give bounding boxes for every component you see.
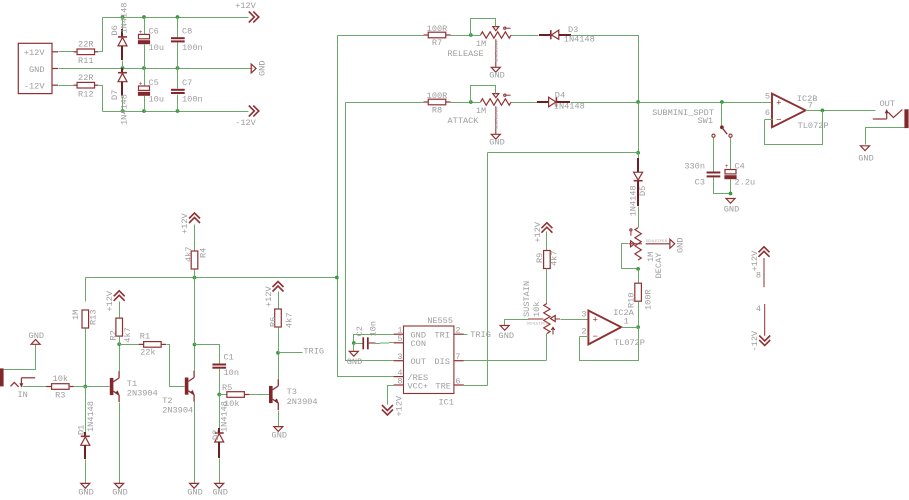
svg-text:+12V: +12V	[395, 395, 405, 416]
wire IC2A output	[622, 327, 639, 329]
wire +12V to R4	[194, 225, 196, 252]
wire R9 to SUSTAIN pot	[546, 269, 548, 304]
svg-text:3: 3	[397, 352, 402, 362]
svg-text:GND: GND	[258, 61, 268, 76]
pin number 3 IC2A	[581, 310, 586, 320]
svg-text:C3: C3	[695, 178, 705, 188]
junction node A	[636, 100, 640, 104]
wire SW1 right throw to C4	[730, 138, 732, 170]
ground GND at T1 emitter	[112, 483, 127, 497]
junction +12V rail / C6	[142, 15, 146, 19]
svg-text:+: +	[139, 80, 143, 87]
wire TRE net horizontal	[488, 152, 639, 154]
wire R12 to -12V rail	[99, 86, 103, 112]
wire D2 to GND	[219, 459, 221, 484]
capacitor C7 100n	[171, 78, 203, 105]
ground GND above IN jack	[29, 331, 44, 344]
svg-text:GND: GND	[489, 138, 504, 148]
wire OUT jack sleeve to GND	[866, 128, 905, 145]
junction +12V rail / C8	[176, 15, 180, 19]
wire R8 left	[346, 102, 424, 104]
svg-text:10u: 10u	[149, 43, 164, 53]
junction RELEASE pot left end	[469, 33, 473, 37]
resistor R4 4k7	[184, 247, 209, 269]
pin 4 /RES stub	[394, 368, 404, 378]
wire IC2B output	[806, 110, 876, 112]
svg-text:8: 8	[397, 376, 402, 386]
wire DECAY wiper bracket	[622, 244, 639, 269]
wire GND from connector	[59, 68, 253, 70]
svg-text:100R: 100R	[427, 91, 448, 101]
wire D1 top	[85, 387, 87, 433]
ground GND at SUSTAIN	[499, 326, 514, 342]
svg-text:-12V: -12V	[24, 81, 45, 91]
wire +12V from connector to R11	[59, 51, 74, 53]
ground GND at OUT jack	[858, 146, 873, 164]
svg-text:+12V: +12V	[180, 213, 190, 234]
ground GND below RELEASE pot	[489, 67, 504, 80]
svg-text:4k7: 4k7	[550, 251, 560, 266]
wire IC2B feedback loop	[765, 111, 823, 145]
wire node A to SW1 pole	[721, 103, 723, 127]
junction C3/C4 GND node	[729, 192, 733, 196]
wire RELEASE pot to D3	[512, 35, 539, 37]
resistor R12	[74, 73, 99, 99]
ground GND below ATTACK pot	[489, 134, 504, 147]
supply -12V arrow (bottom rail)	[235, 106, 259, 129]
svg-text:C4: C4	[735, 162, 745, 172]
wire T2 emitter to GND	[194, 402, 196, 484]
connector J1 power input box	[18, 43, 58, 93]
wire pin1 to C2/GND	[354, 335, 394, 344]
svg-text:2: 2	[581, 326, 586, 336]
svg-text:GND: GND	[29, 331, 44, 341]
svg-text:R6: R6	[268, 317, 278, 327]
pin 2 TRI stub	[454, 326, 464, 336]
capacitor C2 10n	[354, 321, 379, 349]
svg-text:22k: 22k	[140, 348, 155, 358]
wire C6 bottom	[144, 45, 146, 69]
wire IC2A feedback loop	[580, 328, 639, 361]
wire ATTACK pot to D4	[512, 102, 538, 104]
svg-text:GND: GND	[489, 71, 504, 81]
svg-text:GND: GND	[78, 488, 93, 498]
potentiometer DECAY 1M	[629, 228, 664, 279]
capacitor C8 100n	[171, 27, 203, 54]
junction GND rail / C5 C6	[142, 66, 146, 70]
IC IC1 NE555 box	[404, 316, 454, 408]
switch SW1 SUBMINI_SPDT	[652, 108, 732, 137]
svg-text:+: +	[776, 99, 781, 109]
resistor R2 4k7	[109, 318, 134, 343]
svg-text:C5: C5	[149, 78, 159, 88]
wire R13 bottom	[85, 329, 87, 387]
pin names NE555 right	[434, 330, 450, 391]
svg-text:10k: 10k	[532, 302, 542, 317]
svg-text:100n: 100n	[182, 43, 203, 53]
ground GND at D1	[78, 483, 93, 497]
junction rail / R7 net	[335, 276, 339, 280]
wire R11 to +12V rail	[99, 18, 103, 52]
wire T1 collector	[119, 345, 121, 372]
svg-text:330n: 330n	[684, 162, 705, 172]
transistor T3 2N3904	[269, 379, 318, 410]
svg-text:100R: 100R	[644, 289, 654, 310]
junction DECAY bottom	[636, 267, 640, 271]
svg-text:GND: GND	[724, 205, 739, 215]
capacitor C1 10n	[212, 353, 239, 379]
svg-text:TRE: TRE	[435, 381, 450, 391]
wire C8 top	[177, 18, 179, 38]
wire D1 to GND	[85, 460, 87, 484]
wire C1 top	[195, 345, 220, 364]
capacitor C5 10u	[138, 78, 164, 105]
potentiometer RELEASE 1M	[448, 27, 512, 68]
svg-text:R3: R3	[55, 390, 65, 400]
svg-text:C8: C8	[182, 27, 192, 37]
junction SW1 pole tap	[720, 100, 724, 104]
diode D5 1N4148	[628, 158, 648, 216]
svg-text:D4: D4	[555, 91, 565, 101]
svg-text:+: +	[593, 315, 598, 325]
svg-text:D1: D1	[77, 425, 87, 435]
transistor T2 2N3904	[162, 371, 195, 416]
supply +12V pin 8 IC2	[750, 247, 770, 287]
svg-text:6: 6	[455, 376, 460, 386]
node TRIG label at T3	[279, 347, 325, 357]
svg-text:1M: 1M	[71, 310, 81, 320]
svg-text:IC1: IC1	[439, 398, 454, 408]
wire R7 to RELEASE pot	[451, 35, 481, 37]
svg-text:+12V: +12V	[750, 250, 760, 271]
svg-text:GND: GND	[212, 488, 227, 498]
wire SUSTAIN wiper to IC2A pin 3	[561, 319, 589, 321]
capacitor C4 2.2u	[724, 162, 755, 188]
wire T2 collector node to rail	[194, 278, 196, 345]
svg-text:GND: GND	[858, 154, 873, 164]
wire R6 bottom	[278, 328, 280, 353]
svg-text:D3: D3	[568, 25, 578, 35]
diode D7 1N4148	[110, 68, 130, 125]
svg-text:T2: T2	[162, 396, 172, 406]
wire IN jack tip to R3	[23, 386, 47, 388]
wire RELEASE wiper bracket	[471, 19, 496, 36]
wire R4 bottom	[194, 270, 196, 278]
resistor R10 100R	[626, 283, 653, 310]
wire R13 top	[85, 278, 87, 302]
svg-text:TRI: TRI	[434, 330, 449, 340]
wire R3 to T1 base node	[74, 386, 86, 388]
wire SW1 left throw to C3	[713, 138, 715, 172]
svg-text:GND: GND	[347, 357, 362, 367]
wire R2 bottom	[119, 337, 121, 345]
wire ATTACK wiper bracket	[471, 86, 496, 103]
resistor R8 100R	[424, 91, 451, 116]
wire C5 top	[144, 69, 146, 86]
svg-text:NE555: NE555	[427, 316, 453, 326]
svg-text:+12V: +12V	[24, 48, 45, 58]
svg-text:GND: GND	[272, 431, 287, 441]
svg-text:+: +	[139, 29, 143, 36]
svg-text:GND: GND	[676, 238, 686, 253]
svg-text:D6: D6	[110, 25, 120, 35]
svg-text:IN: IN	[18, 390, 28, 400]
wire -12V from connector to R12	[59, 85, 74, 87]
wire +12V to R2	[119, 302, 121, 319]
pin number 7 IC2B	[808, 100, 813, 110]
svg-text:10k: 10k	[53, 374, 68, 384]
supply +12V arrow (top rail)	[235, 1, 259, 22]
svg-text:−: −	[593, 332, 598, 342]
wire D5 to DECAY pot	[638, 207, 640, 228]
svg-text:+: +	[725, 163, 729, 170]
ground GND at DECAY wiper	[646, 238, 686, 253]
svg-text:3: 3	[581, 310, 586, 320]
svg-text:1M: 1M	[476, 39, 486, 49]
wire pin 8 VCC to +12V	[388, 386, 394, 405]
ground GND at C2	[347, 344, 362, 368]
svg-text:GND: GND	[499, 331, 514, 341]
svg-text:C6: C6	[149, 27, 159, 37]
svg-text:OUT: OUT	[411, 357, 426, 367]
diode D3 1N4148	[539, 25, 595, 45]
svg-text:R2: R2	[109, 330, 119, 340]
wire T1 emitter to GND	[119, 403, 121, 484]
svg-text:1N4148: 1N4148	[120, 3, 130, 34]
pin 1 GND stub	[394, 326, 404, 336]
svg-text:T3: T3	[287, 387, 297, 397]
wire R7 left	[338, 35, 424, 37]
svg-text:5: 5	[397, 334, 402, 344]
svg-text:2: 2	[455, 326, 460, 336]
svg-text:DIS: DIS	[434, 357, 449, 367]
svg-text:R9: R9	[535, 253, 545, 263]
wire node A to SW1/IC2B	[639, 102, 772, 104]
svg-text:6: 6	[765, 108, 770, 118]
svg-text:CON: CON	[411, 339, 426, 349]
wire SUSTAIN bottom to DIS	[546, 334, 548, 361]
svg-text:SCHLEIFER: SCHLEIFER	[496, 40, 500, 62]
svg-text:22R: 22R	[78, 73, 93, 83]
svg-text:ATTACK: ATTACK	[448, 116, 480, 126]
svg-text:D5: D5	[638, 186, 648, 196]
pin number 1 IC2A	[624, 317, 629, 327]
diode D2 1N4148	[211, 401, 230, 458]
svg-text:R8: R8	[432, 106, 442, 116]
junction -12V rail / C5	[142, 109, 146, 113]
svg-text:R10: R10	[626, 293, 636, 308]
ground GND below C3/C4	[724, 199, 739, 215]
svg-text:4k7: 4k7	[184, 247, 194, 262]
wire TRE net vertical	[487, 153, 489, 386]
svg-text:R7: R7	[432, 38, 442, 48]
svg-text:SUSTAIN: SUSTAIN	[522, 281, 532, 317]
pin 7 DIS stub	[454, 352, 464, 362]
potentiometer SUSTAIN 10k	[522, 281, 560, 335]
svg-text:R4: R4	[199, 248, 209, 258]
svg-text:−: −	[776, 115, 781, 125]
diode D4 1N4148	[537, 91, 585, 112]
svg-text:SCHLEIFER: SCHLEIFER	[527, 323, 549, 327]
wire D6 top	[122, 18, 124, 30]
supply +12V arrow below pin 8	[382, 395, 405, 416]
svg-text:GND: GND	[187, 488, 202, 498]
wire C7 bottom	[177, 95, 179, 112]
junction C2 left / GND	[352, 341, 356, 345]
junction IC2A output node	[636, 325, 640, 329]
svg-text:R1: R1	[140, 332, 150, 342]
svg-text:R11: R11	[78, 56, 93, 66]
svg-text:T1: T1	[127, 379, 137, 389]
ground GND at T2 emitter	[187, 483, 202, 497]
wire IN jack sleeve to GND	[4, 345, 36, 370]
wire C6 top	[144, 18, 146, 35]
svg-text:+12V: +12V	[533, 221, 543, 242]
svg-text:4k7: 4k7	[284, 313, 294, 328]
svg-text:-12V: -12V	[750, 330, 760, 351]
resistor R3 10k	[46, 374, 74, 400]
wire pin 6 TRE riser	[464, 385, 488, 387]
svg-text:7: 7	[455, 352, 460, 362]
wire DECAY to R10	[638, 269, 640, 284]
pin names NE555 left	[408, 330, 429, 391]
connector IN jack	[0, 368, 35, 400]
wire D7 anode to -12V rail	[122, 97, 124, 112]
svg-text:10n: 10n	[224, 368, 239, 378]
junction R2 / R1 / T1 collector	[117, 342, 121, 346]
junction T2 collector / C1	[193, 343, 197, 347]
supply -12V pin 4 IC2	[750, 304, 770, 352]
svg-text:10u: 10u	[149, 95, 164, 105]
svg-text:GND: GND	[29, 65, 44, 75]
svg-text:C2: C2	[355, 326, 365, 336]
connector OUT jack	[873, 99, 909, 128]
svg-text:OUT: OUT	[880, 99, 895, 109]
resistor R9 4k7	[535, 251, 559, 269]
svg-text:2N3904: 2N3904	[287, 397, 318, 407]
svg-text:8: 8	[756, 271, 761, 281]
pin number 5 IC2B	[765, 92, 770, 102]
svg-text:4: 4	[756, 304, 761, 314]
svg-text:D7: D7	[110, 90, 120, 100]
pin 8 VCC+ stub	[394, 376, 404, 386]
wire C3 bottom to GND node	[714, 178, 731, 194]
wire R8 to ATTACK pot	[451, 102, 481, 104]
wire +12V top rail	[103, 17, 249, 19]
wire T1 base	[86, 386, 110, 388]
wire D3 to node A	[571, 36, 639, 103]
svg-text:-12V: -12V	[235, 118, 256, 128]
resistor R7 100R	[424, 24, 451, 48]
svg-text:1M: 1M	[476, 106, 486, 116]
resistor R5 10k	[222, 383, 249, 409]
wire C7 top	[177, 69, 179, 89]
svg-text:C1: C1	[224, 353, 234, 363]
capacitor C3 330n	[684, 162, 720, 188]
svg-text:+12V: +12V	[235, 1, 256, 11]
capacitor C6 10u	[138, 27, 164, 54]
junction ATTACK pot left end	[469, 100, 473, 104]
svg-text:22R: 22R	[78, 40, 93, 50]
svg-text:100n: 100n	[182, 95, 203, 105]
svg-text:1N4148: 1N4148	[220, 401, 230, 432]
wire R5 to T3 base	[250, 394, 270, 396]
wire -12V bottom rail	[103, 111, 249, 113]
svg-text:GND: GND	[112, 488, 127, 498]
supply +12V arrow above R9	[533, 221, 553, 242]
svg-text:SW1: SW1	[698, 116, 713, 126]
svg-text:1N4148: 1N4148	[628, 185, 638, 216]
resistor R6 4k7	[268, 309, 294, 328]
junction GND rail / C7 C8	[176, 66, 180, 70]
wire R1 to T2 base	[167, 345, 185, 387]
svg-text:TRIG: TRIG	[470, 330, 491, 340]
svg-text:2.2u: 2.2u	[735, 178, 756, 188]
ground GND at D2	[212, 483, 227, 497]
wire T3 collector	[278, 353, 280, 380]
pin 3 OUT stub	[394, 352, 404, 362]
supply +12V arrow above R6	[264, 282, 284, 308]
op-amp IC2A TL072P	[588, 308, 645, 348]
svg-text:1: 1	[624, 317, 629, 327]
op-amp IC2B TL072P	[772, 94, 829, 131]
resistor R11	[74, 40, 99, 67]
junction IC2B output	[821, 109, 825, 113]
junction -12V rail / C7	[176, 109, 180, 113]
wire C5 bottom	[144, 96, 146, 112]
wire R10 to IC2A output	[638, 302, 640, 328]
svg-text:R12: R12	[78, 89, 93, 99]
wire /RES net vertical (R7 to pin 4)	[338, 36, 394, 377]
wire C1 bottom	[219, 369, 221, 395]
wire base rail (R13/R4 node)	[86, 277, 337, 279]
ground GND arrow (mid rail)	[251, 61, 267, 76]
ground GND at T3 emitter	[272, 427, 287, 441]
wire T2 collector	[194, 345, 196, 371]
svg-text:2N3904: 2N3904	[127, 388, 158, 398]
wire D6 anode to GND rail	[122, 61, 124, 69]
svg-text:+12V: +12V	[264, 286, 274, 307]
junction T1 base node	[83, 385, 87, 389]
wire C2 right to pin 5	[376, 343, 394, 344]
svg-text:4k7: 4k7	[123, 327, 133, 342]
potentiometer ATTACK 1M	[448, 94, 512, 135]
svg-text:100R: 100R	[427, 24, 448, 34]
junction -12V rail / D7	[121, 109, 125, 113]
svg-text:DECAY: DECAY	[654, 253, 664, 279]
svg-text:TL072P: TL072P	[614, 338, 645, 348]
svg-text:2N3904: 2N3904	[162, 405, 193, 415]
wire GND to SUSTAIN	[505, 320, 529, 326]
pin 5 CON stub	[394, 334, 404, 344]
svg-text:1N4148: 1N4148	[86, 401, 96, 432]
junction +12V rail / D6	[121, 15, 125, 19]
wire node A down	[638, 103, 640, 153]
junction node A / TRE	[636, 151, 640, 155]
wire D4 to node A	[571, 102, 639, 104]
resistor R13 1M	[71, 310, 99, 328]
junction rail / R4 T2	[193, 276, 197, 280]
svg-text:VCC+: VCC+	[408, 381, 429, 391]
junction R6 / TRIG / T3 collector	[276, 351, 280, 355]
supply +12V arrow above R4	[180, 213, 200, 234]
diode D1 1N4148	[77, 401, 97, 459]
wire IC2A pin2 stub	[580, 336, 589, 338]
node TRIG label at pin 2	[464, 330, 491, 340]
wire C8 bottom	[177, 43, 179, 69]
pin number 6 IC2B	[765, 108, 770, 118]
svg-text:RELEASE: RELEASE	[448, 49, 484, 59]
